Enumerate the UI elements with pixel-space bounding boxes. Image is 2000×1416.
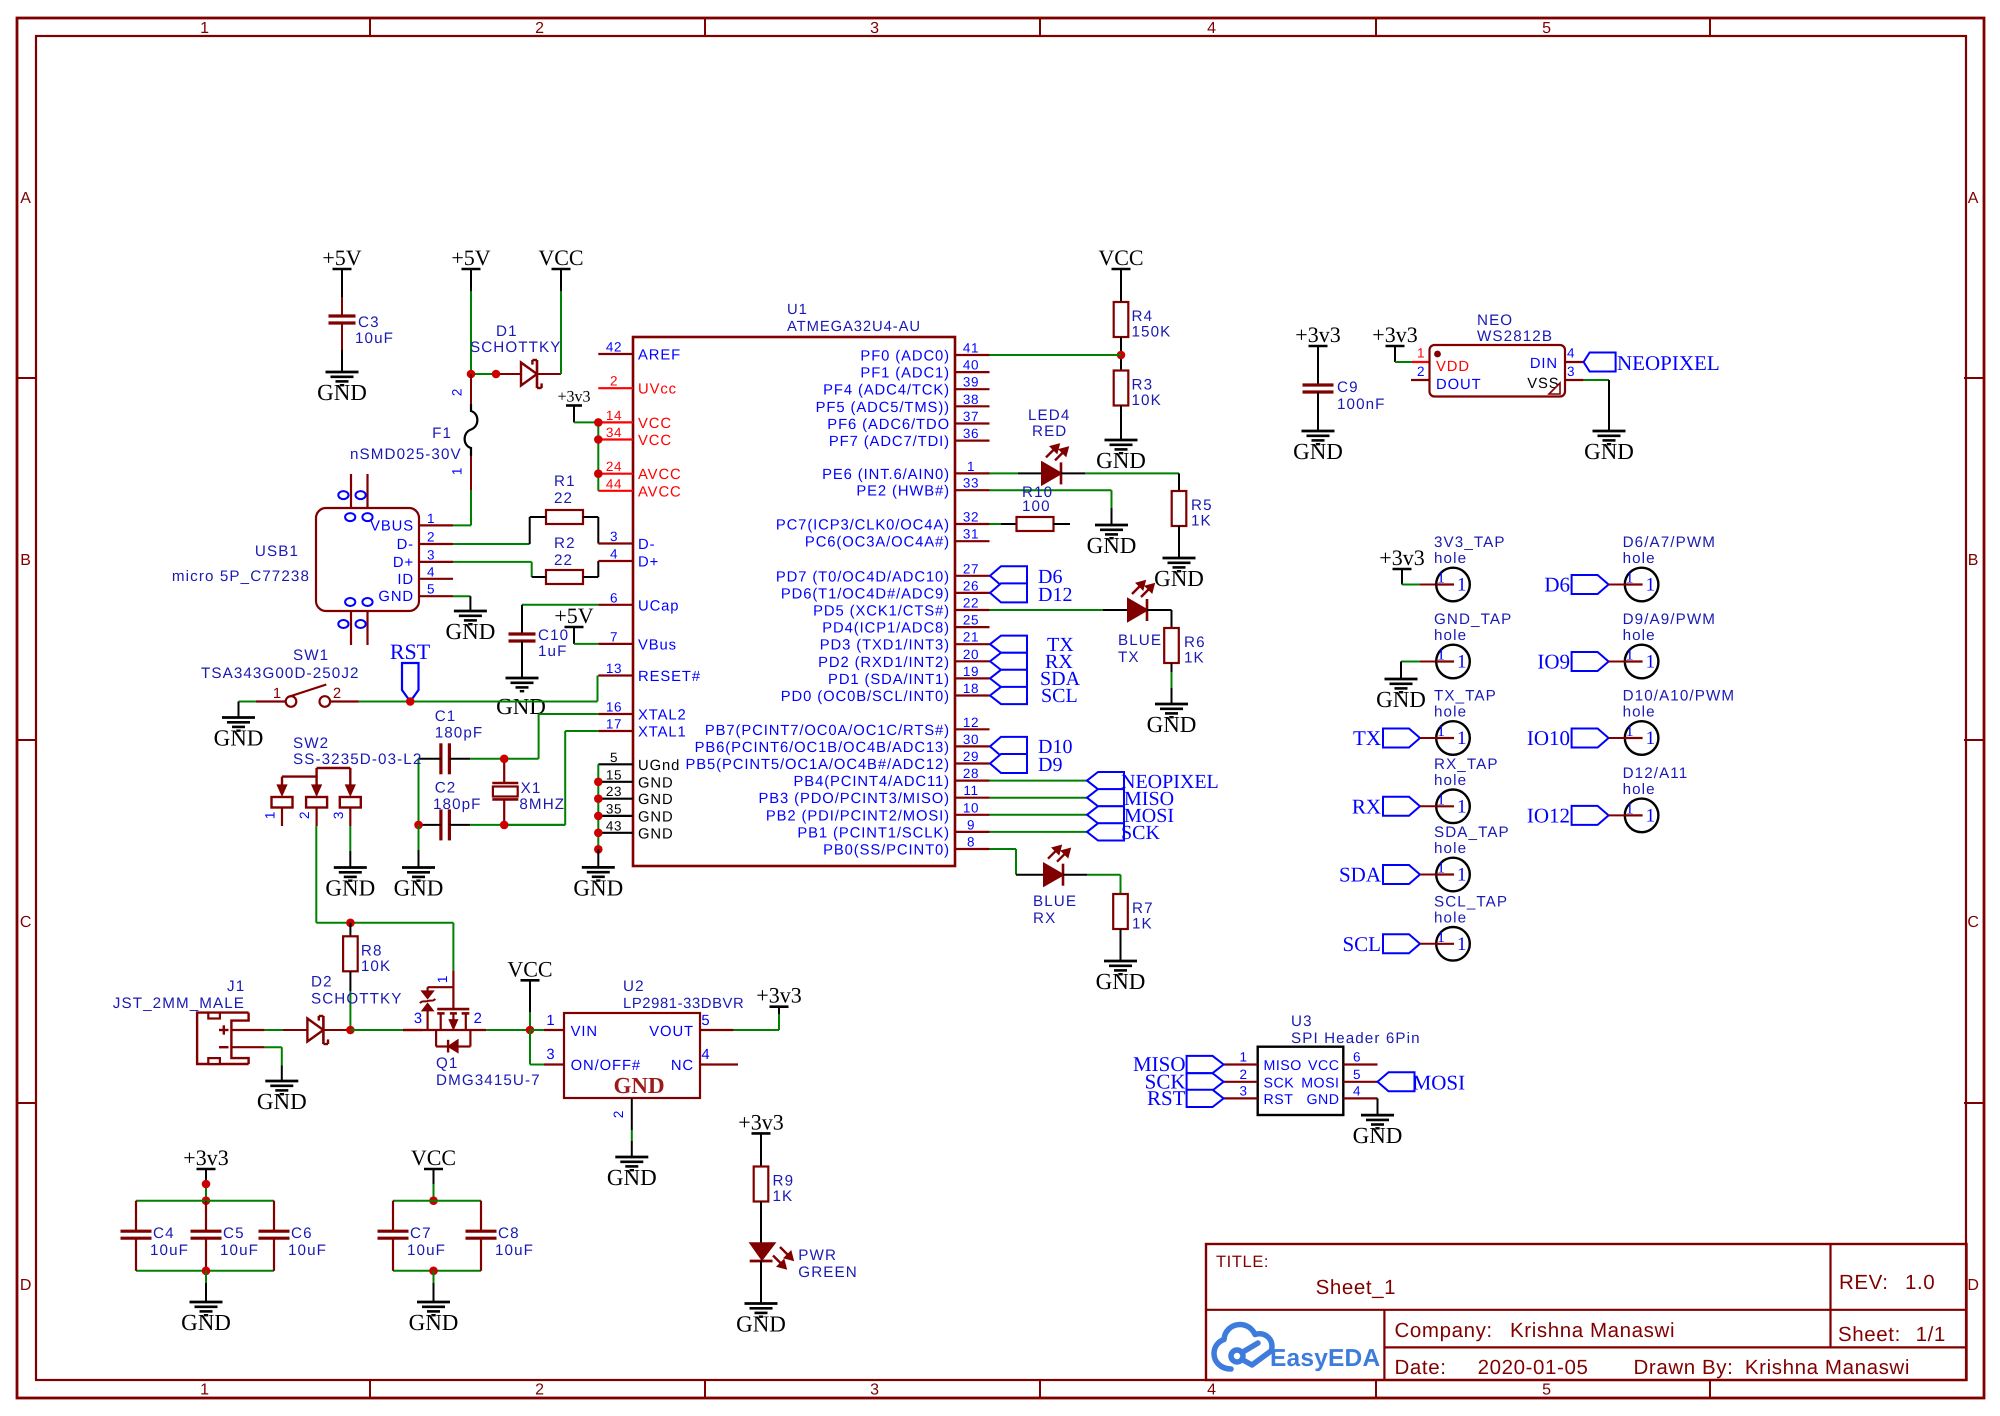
svg-text:GND: GND	[638, 809, 674, 825]
svg-text:VCC: VCC	[411, 1145, 456, 1170]
svg-text:37: 37	[963, 409, 979, 424]
svg-text:PF4 (ADC4/TCK): PF4 (ADC4/TCK)	[823, 383, 950, 399]
svg-text:+5V: +5V	[322, 245, 361, 270]
svg-text:GND: GND	[214, 726, 264, 751]
svg-text:PB2 (PDI/PCINT2/MOSI): PB2 (PDI/PCINT2/MOSI)	[766, 808, 950, 824]
svg-text:3: 3	[546, 1047, 555, 1063]
svg-text:1: 1	[1457, 652, 1467, 673]
svg-text:26: 26	[963, 578, 979, 593]
svg-text:36: 36	[963, 426, 979, 441]
svg-text:PC7(ICP3/CLK0/OC4A): PC7(ICP3/CLK0/OC4A)	[776, 518, 950, 534]
svg-text:38: 38	[963, 392, 979, 407]
svg-text:180pF: 180pF	[435, 725, 484, 742]
svg-text:X1: X1	[521, 780, 542, 797]
svg-text:3: 3	[870, 1382, 880, 1399]
svg-text:1: 1	[1437, 791, 1445, 808]
svg-text:6: 6	[1353, 1050, 1361, 1065]
svg-text:AVCC: AVCC	[638, 467, 682, 483]
svg-text:10uF: 10uF	[355, 330, 394, 347]
svg-text:16: 16	[606, 700, 622, 715]
svg-text:PF5 (ADC5/TMS)): PF5 (ADC5/TMS))	[816, 400, 950, 416]
svg-text:D9: D9	[1038, 754, 1062, 776]
svg-text:D-: D-	[397, 537, 414, 553]
svg-text:7: 7	[610, 629, 618, 644]
svg-text:1/1: 1/1	[1916, 1323, 1946, 1346]
svg-text:5: 5	[1353, 1067, 1361, 1082]
svg-text:C4: C4	[153, 1225, 175, 1242]
svg-text:9: 9	[967, 817, 975, 832]
svg-text:SCL: SCL	[1342, 932, 1381, 956]
svg-text:1: 1	[1646, 652, 1656, 673]
svg-text:U3: U3	[1291, 1013, 1313, 1030]
svg-text:GND: GND	[317, 380, 367, 405]
svg-text:PB7(PCINT7/OC0A/OC1C/RTS#): PB7(PCINT7/OC0A/OC1C/RTS#)	[705, 723, 950, 739]
svg-text:5: 5	[1542, 1382, 1552, 1399]
svg-text:25: 25	[963, 613, 979, 628]
svg-text:1: 1	[1417, 346, 1425, 361]
svg-text:LP2981-33DBVR: LP2981-33DBVR	[623, 996, 744, 1012]
svg-text:VOUT: VOUT	[649, 1024, 694, 1040]
svg-text:GND: GND	[638, 775, 674, 791]
svg-text:XTAL1: XTAL1	[638, 725, 687, 741]
svg-text:J1: J1	[227, 978, 245, 995]
svg-text:1: 1	[1626, 723, 1634, 740]
svg-text:PE6 (INT.6/AIN0): PE6 (INT.6/AIN0)	[822, 467, 950, 483]
svg-text:GND: GND	[378, 589, 414, 605]
svg-text:RST: RST	[1264, 1092, 1294, 1108]
svg-text:21: 21	[963, 630, 979, 645]
svg-text:A: A	[1968, 190, 1979, 207]
svg-text:1: 1	[273, 686, 282, 702]
svg-text:VCC: VCC	[638, 433, 672, 449]
svg-text:GND: GND	[607, 1165, 657, 1190]
svg-text:VCC: VCC	[1308, 1058, 1339, 1074]
svg-text:RED: RED	[1032, 423, 1067, 440]
svg-text:GND: GND	[257, 1089, 307, 1114]
svg-text:D12: D12	[1038, 584, 1072, 606]
svg-text:30: 30	[963, 732, 979, 747]
svg-text:RST: RST	[390, 639, 431, 664]
svg-text:12: 12	[963, 715, 979, 730]
svg-text:1: 1	[1239, 1050, 1247, 1065]
svg-text:5: 5	[701, 1013, 710, 1029]
svg-text:GND: GND	[1306, 1092, 1339, 1108]
svg-text:ON/OFF#: ON/OFF#	[571, 1058, 641, 1074]
svg-text:PD0 (OC0B/SCL/INT0): PD0 (OC0B/SCL/INT0)	[781, 689, 950, 705]
svg-text:PB3 (PDO/PCINT3/MISO): PB3 (PDO/PCINT3/MISO)	[758, 791, 950, 807]
svg-text:+5V: +5V	[554, 603, 593, 628]
svg-text:150K: 150K	[1132, 324, 1172, 341]
svg-text:GND: GND	[1584, 439, 1634, 464]
svg-text:1: 1	[1457, 865, 1467, 886]
svg-text:VCC: VCC	[638, 416, 672, 432]
svg-text:32: 32	[963, 510, 979, 525]
svg-text:44: 44	[606, 476, 622, 491]
svg-text:18: 18	[963, 681, 979, 696]
svg-text:GND: GND	[1096, 969, 1146, 994]
svg-text:1: 1	[1437, 570, 1445, 587]
svg-text:1: 1	[200, 1382, 210, 1399]
svg-text:PD5 (XCK1/CTS#): PD5 (XCK1/CTS#)	[813, 604, 950, 620]
svg-text:19: 19	[963, 664, 979, 679]
svg-text:2: 2	[427, 530, 435, 545]
svg-text:1: 1	[1457, 934, 1467, 955]
svg-text:PD2 (RXD1/INT2): PD2 (RXD1/INT2)	[818, 655, 950, 671]
svg-text:4: 4	[427, 564, 435, 579]
svg-text:6: 6	[610, 590, 618, 605]
svg-text:PD4(ICP1/ADC8): PD4(ICP1/ADC8)	[822, 621, 950, 637]
svg-text:2: 2	[297, 811, 312, 819]
svg-text:10uF: 10uF	[150, 1242, 189, 1259]
svg-text:DIN: DIN	[1530, 356, 1558, 372]
svg-text:4: 4	[1207, 20, 1217, 37]
svg-text:GND: GND	[394, 876, 444, 901]
svg-text:U1: U1	[787, 302, 808, 318]
svg-text:PD1 (SDA/INT1): PD1 (SDA/INT1)	[828, 672, 950, 688]
svg-text:PB1 (PCINT1/SCLK): PB1 (PCINT1/SCLK)	[797, 825, 950, 841]
svg-text:1: 1	[546, 1013, 555, 1029]
svg-text:10K: 10K	[1132, 392, 1162, 409]
svg-text:LED4: LED4	[1028, 407, 1070, 424]
svg-text:F1: F1	[432, 425, 452, 442]
svg-text:1: 1	[435, 975, 450, 983]
svg-text:1: 1	[1646, 575, 1656, 596]
svg-text:MOSI: MOSI	[1301, 1075, 1339, 1091]
svg-text:hole: hole	[1434, 909, 1467, 926]
svg-text:RESET#: RESET#	[638, 669, 701, 685]
svg-text:R7: R7	[1132, 900, 1154, 917]
svg-text:1: 1	[1437, 647, 1445, 664]
svg-text:GND_TAP: GND_TAP	[1434, 611, 1512, 628]
svg-text:22: 22	[554, 552, 573, 569]
svg-text:C5: C5	[223, 1225, 245, 1242]
svg-text:Sheet_1: Sheet_1	[1316, 1276, 1397, 1299]
svg-text:NC: NC	[671, 1058, 694, 1074]
svg-text:PF7 (ADC7/TDI): PF7 (ADC7/TDI)	[829, 434, 950, 450]
svg-text:1: 1	[200, 20, 210, 37]
svg-text:2: 2	[535, 20, 545, 37]
svg-text:RX_TAP: RX_TAP	[1434, 756, 1499, 773]
svg-text:VIN: VIN	[571, 1024, 598, 1040]
svg-text:2: 2	[474, 1011, 483, 1027]
svg-text:3: 3	[331, 811, 346, 819]
svg-text:D2: D2	[311, 974, 333, 991]
svg-text:17: 17	[606, 717, 622, 732]
svg-text:31: 31	[963, 527, 979, 542]
svg-text:PB0(SS/PCINT0): PB0(SS/PCINT0)	[823, 843, 950, 859]
svg-text:UGnd: UGnd	[638, 758, 680, 774]
svg-text:Krishna Manaswi: Krishna Manaswi	[1745, 1356, 1910, 1379]
svg-text:GND: GND	[181, 1310, 231, 1335]
svg-text:hole: hole	[1623, 627, 1656, 644]
svg-text:+3v3: +3v3	[183, 1145, 228, 1170]
svg-text:2: 2	[610, 374, 618, 389]
svg-text:R6: R6	[1184, 634, 1206, 651]
svg-text:40: 40	[963, 358, 979, 373]
svg-text:PF0 (ADC0): PF0 (ADC0)	[860, 349, 950, 365]
svg-text:3V3_TAP: 3V3_TAP	[1434, 534, 1506, 551]
svg-text:Date:: Date:	[1395, 1356, 1447, 1379]
svg-text:SCK: SCK	[1264, 1075, 1295, 1091]
svg-text:10uF: 10uF	[288, 1242, 327, 1259]
svg-text:D-: D-	[638, 537, 655, 553]
svg-text:22: 22	[963, 596, 979, 611]
svg-text:U2: U2	[623, 978, 645, 995]
svg-text:+3v3: +3v3	[1295, 322, 1340, 347]
svg-text:hole: hole	[1434, 550, 1467, 567]
svg-text:+3v3: +3v3	[1379, 545, 1424, 570]
svg-text:+3v3: +3v3	[557, 389, 590, 406]
svg-text:VBUS: VBUS	[370, 518, 414, 534]
svg-text:GND: GND	[1293, 439, 1343, 464]
svg-text:AVCC: AVCC	[638, 484, 682, 500]
svg-text:SCL: SCL	[1041, 685, 1078, 707]
svg-text:C10: C10	[538, 627, 569, 644]
svg-text:hole: hole	[1434, 627, 1467, 644]
svg-text:1K: 1K	[773, 1188, 794, 1205]
svg-text:+3v3: +3v3	[756, 983, 801, 1008]
svg-text:GND: GND	[638, 792, 674, 808]
svg-text:GND: GND	[1087, 533, 1137, 558]
svg-text:10K: 10K	[361, 958, 391, 975]
svg-text:5: 5	[427, 582, 435, 597]
svg-text:1K: 1K	[1191, 513, 1212, 530]
svg-text:C: C	[1967, 914, 1979, 931]
svg-text:RX: RX	[1352, 794, 1381, 818]
svg-text:SCHOTTKY: SCHOTTKY	[470, 339, 562, 356]
svg-text:1.0: 1.0	[1905, 1271, 1935, 1294]
svg-text:1: 1	[1437, 723, 1445, 740]
svg-text:SW2: SW2	[293, 735, 329, 752]
svg-text:PF6 (ADC6/TDO: PF6 (ADC6/TDO	[827, 417, 950, 433]
svg-text:1: 1	[1646, 728, 1656, 749]
svg-text:PB5(PCINT5/OC1A/OC4B#/ADC12): PB5(PCINT5/OC1A/OC4B#/ADC12)	[686, 757, 951, 773]
svg-text:C3: C3	[358, 314, 380, 331]
svg-text:hole: hole	[1434, 772, 1467, 789]
svg-text:hole: hole	[1434, 840, 1467, 857]
svg-text:39: 39	[963, 375, 979, 390]
svg-text:1: 1	[1437, 929, 1445, 946]
svg-text:D12/A11: D12/A11	[1623, 765, 1689, 782]
svg-text:GND: GND	[638, 826, 674, 842]
svg-text:R1: R1	[554, 473, 576, 490]
svg-text:RST: RST	[1147, 1086, 1186, 1110]
svg-text:MISO: MISO	[1264, 1058, 1302, 1074]
svg-text:BLUE: BLUE	[1033, 893, 1077, 910]
svg-text:27: 27	[963, 561, 979, 576]
svg-text:1: 1	[1457, 575, 1467, 596]
svg-text:+3v3: +3v3	[738, 1109, 783, 1134]
svg-text:4: 4	[1567, 346, 1575, 361]
svg-text:PE2 (HWB#): PE2 (HWB#)	[856, 484, 950, 500]
svg-text:R2: R2	[554, 535, 576, 552]
svg-text:D10/A10/PWM: D10/A10/PWM	[1623, 688, 1736, 705]
svg-text:5: 5	[610, 750, 618, 765]
svg-text:2: 2	[535, 1382, 545, 1399]
svg-text:1: 1	[1457, 796, 1467, 817]
svg-text:USB1: USB1	[255, 543, 299, 560]
svg-text:1: 1	[1437, 860, 1445, 877]
svg-text:3: 3	[427, 547, 435, 562]
svg-text:VBus: VBus	[638, 637, 677, 653]
svg-text:GND: GND	[1154, 566, 1204, 591]
svg-text:1: 1	[1457, 728, 1467, 749]
svg-text:DMG3415U-7: DMG3415U-7	[436, 1072, 541, 1089]
svg-text:hole: hole	[1434, 704, 1467, 721]
svg-text:3: 3	[870, 20, 880, 37]
svg-text:+3v3: +3v3	[1372, 322, 1417, 347]
svg-text:VCC: VCC	[507, 956, 552, 981]
svg-text:PC6(OC3A/OC4A#): PC6(OC3A/OC4A#)	[805, 535, 950, 551]
svg-text:20: 20	[963, 647, 979, 662]
svg-text:TX_TAP: TX_TAP	[1434, 688, 1497, 705]
svg-text:TSA343G00D-250J2: TSA343G00D-250J2	[201, 665, 360, 682]
svg-text:15: 15	[606, 767, 622, 782]
svg-text:34: 34	[606, 425, 622, 440]
svg-text:SCL_TAP: SCL_TAP	[1434, 893, 1508, 910]
svg-text:Krishna Manaswi: Krishna Manaswi	[1510, 1319, 1675, 1342]
svg-text:41: 41	[963, 341, 979, 356]
svg-text:A: A	[20, 190, 31, 207]
svg-text:R5: R5	[1191, 497, 1213, 514]
svg-text:B: B	[1968, 552, 1979, 569]
svg-text:13: 13	[606, 661, 622, 676]
svg-text:43: 43	[606, 818, 622, 833]
svg-text:1: 1	[427, 511, 435, 526]
svg-text:35: 35	[606, 801, 622, 816]
svg-text:NEOPIXEL: NEOPIXEL	[1617, 351, 1720, 375]
svg-text:GND: GND	[325, 876, 375, 901]
svg-text:PD7 (T0/OC4D/ADC10): PD7 (T0/OC4D/ADC10)	[776, 569, 950, 585]
svg-text:D1: D1	[496, 323, 518, 340]
svg-text:4: 4	[610, 547, 618, 562]
svg-text:11: 11	[963, 783, 978, 798]
svg-text:MOSI: MOSI	[1413, 1070, 1466, 1094]
svg-text:4: 4	[1207, 1382, 1217, 1399]
svg-text:D+: D+	[638, 555, 659, 571]
svg-text:UCap: UCap	[638, 598, 679, 614]
svg-text:EasyEDA: EasyEDA	[1270, 1345, 1380, 1372]
svg-text:IO12: IO12	[1527, 803, 1570, 827]
svg-text:2: 2	[611, 1110, 626, 1118]
svg-text:3: 3	[610, 529, 618, 544]
svg-text:GND: GND	[1353, 1123, 1403, 1148]
svg-text:GND: GND	[1147, 712, 1197, 737]
svg-text:3: 3	[414, 1011, 423, 1027]
svg-text:UVcc: UVcc	[638, 382, 677, 398]
svg-text:R4: R4	[1132, 308, 1154, 325]
svg-text:4: 4	[701, 1047, 710, 1063]
svg-text:SDA_TAP: SDA_TAP	[1434, 824, 1510, 841]
svg-text:1: 1	[1626, 570, 1634, 587]
svg-text:2: 2	[450, 388, 465, 396]
svg-text:GND: GND	[1096, 448, 1146, 473]
svg-text:PD6(T1/OC4D#/ADC9): PD6(T1/OC4D#/ADC9)	[781, 586, 950, 602]
svg-text:100nF: 100nF	[1337, 396, 1386, 413]
svg-text:Q1: Q1	[436, 1055, 458, 1072]
svg-text:R3: R3	[1132, 377, 1154, 394]
svg-text:1: 1	[263, 811, 278, 819]
svg-text:10: 10	[963, 800, 979, 815]
svg-text:D9/A9/PWM: D9/A9/PWM	[1623, 611, 1716, 628]
svg-text:TX: TX	[1353, 726, 1381, 750]
svg-text:RX: RX	[1033, 910, 1056, 927]
svg-text:C: C	[20, 914, 32, 931]
svg-text:WS2812B: WS2812B	[1477, 328, 1553, 345]
svg-text:SCHOTTKY: SCHOTTKY	[311, 991, 403, 1008]
svg-text:VCC: VCC	[538, 245, 583, 270]
svg-text:22: 22	[554, 490, 573, 507]
svg-text:2020-01-05: 2020-01-05	[1478, 1356, 1589, 1379]
svg-text:3: 3	[1567, 364, 1575, 379]
svg-text:PB4(PCINT4/ADC11): PB4(PCINT4/ADC11)	[794, 774, 950, 790]
svg-text:DOUT: DOUT	[1436, 377, 1482, 393]
svg-text:1: 1	[1626, 800, 1634, 817]
svg-text:C8: C8	[498, 1225, 520, 1242]
svg-text:24: 24	[606, 459, 622, 474]
svg-text:GND: GND	[613, 1073, 664, 1098]
svg-text:Company:: Company:	[1395, 1319, 1493, 1342]
svg-text:Drawn By:: Drawn By:	[1634, 1356, 1734, 1379]
svg-text:C7: C7	[410, 1225, 432, 1242]
svg-text:PWR: PWR	[798, 1247, 837, 1264]
svg-text:VCC: VCC	[1098, 245, 1143, 270]
svg-text:1: 1	[1646, 805, 1656, 826]
svg-text:+5V: +5V	[451, 245, 490, 270]
svg-text:hole: hole	[1623, 781, 1656, 798]
svg-text:Sheet:: Sheet:	[1838, 1323, 1901, 1346]
svg-text:C2: C2	[435, 780, 457, 797]
svg-text:3: 3	[1239, 1083, 1247, 1098]
svg-text:B: B	[20, 552, 31, 569]
svg-text:D6: D6	[1544, 573, 1570, 597]
svg-text:D6/A7/PWM: D6/A7/PWM	[1623, 534, 1716, 551]
svg-text:8MHZ: 8MHZ	[519, 796, 565, 813]
svg-text:SCK: SCK	[1121, 822, 1160, 844]
svg-text:R9: R9	[773, 1173, 795, 1190]
svg-text:C6: C6	[291, 1225, 313, 1242]
svg-text:29: 29	[963, 749, 979, 764]
svg-text:REV:: REV:	[1839, 1271, 1889, 1294]
svg-text:NEO: NEO	[1477, 312, 1513, 329]
svg-text:28: 28	[963, 766, 979, 781]
svg-text:100: 100	[1022, 498, 1051, 515]
svg-text:C1: C1	[435, 708, 457, 725]
svg-text:SW1: SW1	[293, 647, 329, 664]
svg-text:PB6(PCINT6/OC1B/OC4B/ADC13): PB6(PCINT6/OC1B/OC4B/ADC13)	[695, 740, 950, 756]
svg-text:10uF: 10uF	[407, 1242, 446, 1259]
svg-text:14: 14	[606, 408, 622, 423]
svg-text:1uF: 1uF	[538, 643, 567, 660]
svg-text:GND: GND	[573, 875, 623, 900]
svg-text:GREEN: GREEN	[798, 1264, 858, 1281]
svg-text:1K: 1K	[1184, 650, 1205, 667]
svg-text:2: 2	[333, 686, 342, 702]
svg-text:hole: hole	[1623, 704, 1656, 721]
svg-text:1K: 1K	[1132, 916, 1153, 933]
svg-text:4: 4	[1353, 1083, 1361, 1098]
svg-text:10uF: 10uF	[220, 1242, 259, 1259]
svg-text:180pF: 180pF	[433, 796, 482, 813]
svg-text:GND: GND	[409, 1310, 459, 1335]
svg-text:23: 23	[606, 784, 622, 799]
svg-text:PD3 (TXD1/INT3): PD3 (TXD1/INT3)	[820, 638, 950, 654]
svg-text:SS-3235D-03-L2: SS-3235D-03-L2	[293, 751, 422, 768]
svg-text:IO9: IO9	[1537, 650, 1570, 674]
svg-text:hole: hole	[1623, 550, 1656, 567]
svg-text:1: 1	[450, 467, 465, 475]
svg-text:SDA: SDA	[1339, 863, 1382, 887]
